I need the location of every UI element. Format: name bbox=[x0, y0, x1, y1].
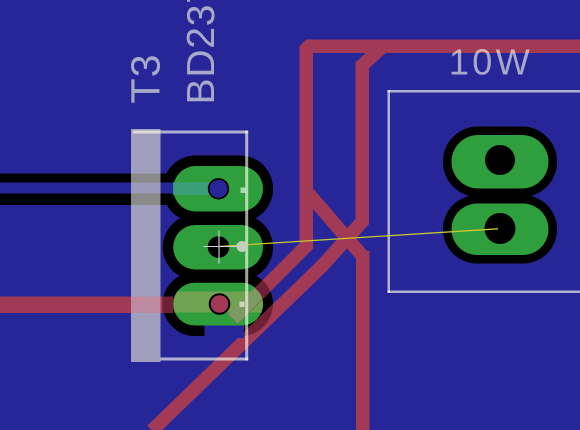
svg-text:T3: T3 bbox=[123, 53, 169, 103]
silkscreen outline T3: left edge bbox=[133, 131, 136, 361]
polygon thermal spoke below pad P3 (redraw) bbox=[205, 326, 245, 338]
blue trace under pad P1 (teal blend) bbox=[173, 182, 211, 195]
silkscreen outline 10W: bottom edge bbox=[388, 291, 580, 294]
silkscreen wide bar of T3 bbox=[131, 129, 161, 362]
pin marker on pad P1 bbox=[241, 188, 246, 194]
hole pad P5 bbox=[485, 213, 516, 244]
silkscreen outline 10W: top edge bbox=[388, 90, 580, 93]
red trace H over pad P3 (olive blend) bbox=[173, 292, 263, 313]
pad P2 (T3 pin 2) bbox=[173, 225, 263, 270]
clearance ring around pad P4 bbox=[443, 127, 557, 198]
selection crosshair vertical at pad P2 origin bbox=[218, 231, 220, 264]
svg-text:10W: 10W bbox=[449, 42, 533, 83]
pad P4 (10W pin 1) bbox=[452, 135, 549, 189]
airwire (ratsnest) from pad P2 to pad P5 bbox=[219, 229, 498, 247]
hole pad P2 bbox=[208, 236, 230, 258]
hole ring pad P3 bbox=[209, 293, 231, 315]
trace d1 over pad P3 (dark olive blend) bbox=[152, 222, 362, 430]
silkscreen outline T3: right edge bbox=[245, 131, 248, 361]
bar over red trace H (blend) bbox=[131, 297, 161, 314]
clearance around bottom-layer trace to pad P1 bbox=[0, 174, 170, 206]
silkscreen outline 10W: left edge bbox=[388, 90, 391, 293]
selection crosshair horizontal at pad P2 origin bbox=[203, 246, 237, 248]
pad P3 (T3 pin 3) bbox=[173, 283, 263, 326]
hole ring pad P1 bbox=[208, 178, 229, 199]
top trace H horizontal into pad P3 bbox=[0, 297, 163, 314]
trace H over clearance (dark blend) bbox=[163, 297, 174, 314]
drill hole pad P1 bbox=[210, 180, 228, 198]
bar over trace clearance (blend) bbox=[131, 174, 161, 206]
bottom-layer blue trace into pad P1 bbox=[0, 183, 174, 194]
drill hole pad P3 (red trace visible) bbox=[211, 295, 229, 313]
bar over blue trace (blend) bbox=[131, 183, 161, 194]
trace B diagonal over pad P3 (dark olive blend) bbox=[233, 293, 260, 320]
trace d1 over clearance (dark blend) bbox=[152, 222, 362, 430]
svg-text:BD237: BD237 bbox=[180, 0, 223, 105]
clearance ring around pad P5 bbox=[443, 195, 557, 264]
junction dot on pad P2 bbox=[237, 241, 248, 252]
trace B diagonal over clearance (dark blend) bbox=[233, 280, 273, 320]
clearance ring around pad P2 bbox=[163, 215, 273, 281]
top trace A horizontal bbox=[306, 40, 580, 54]
polygon thermal spoke below pad P3 bbox=[205, 324, 245, 338]
silkscreen outline T3: top edge bbox=[133, 131, 249, 134]
top trace B vertical bending SW toward pad P3 bbox=[233, 46, 306, 319]
silkscreen outline T3: bottom edge bbox=[133, 358, 249, 361]
pin marker on pad P3 bbox=[240, 302, 245, 308]
hole pad P4 bbox=[485, 145, 515, 175]
top trace D vertical bbox=[356, 251, 370, 430]
corner trace A/B chamfer bbox=[300, 40, 314, 54]
pad P5 (10W pin 2) bbox=[452, 204, 549, 256]
top trace C from A down, bending to d1 diagonal bbox=[152, 46, 383, 430]
clearance ring around pad P1 bbox=[163, 156, 273, 223]
top trace W diagonal (B to D) bbox=[306, 191, 363, 257]
pad P1 (T3 pin 1) bbox=[173, 166, 263, 212]
clearance ring around pad P3 bbox=[163, 272, 273, 336]
